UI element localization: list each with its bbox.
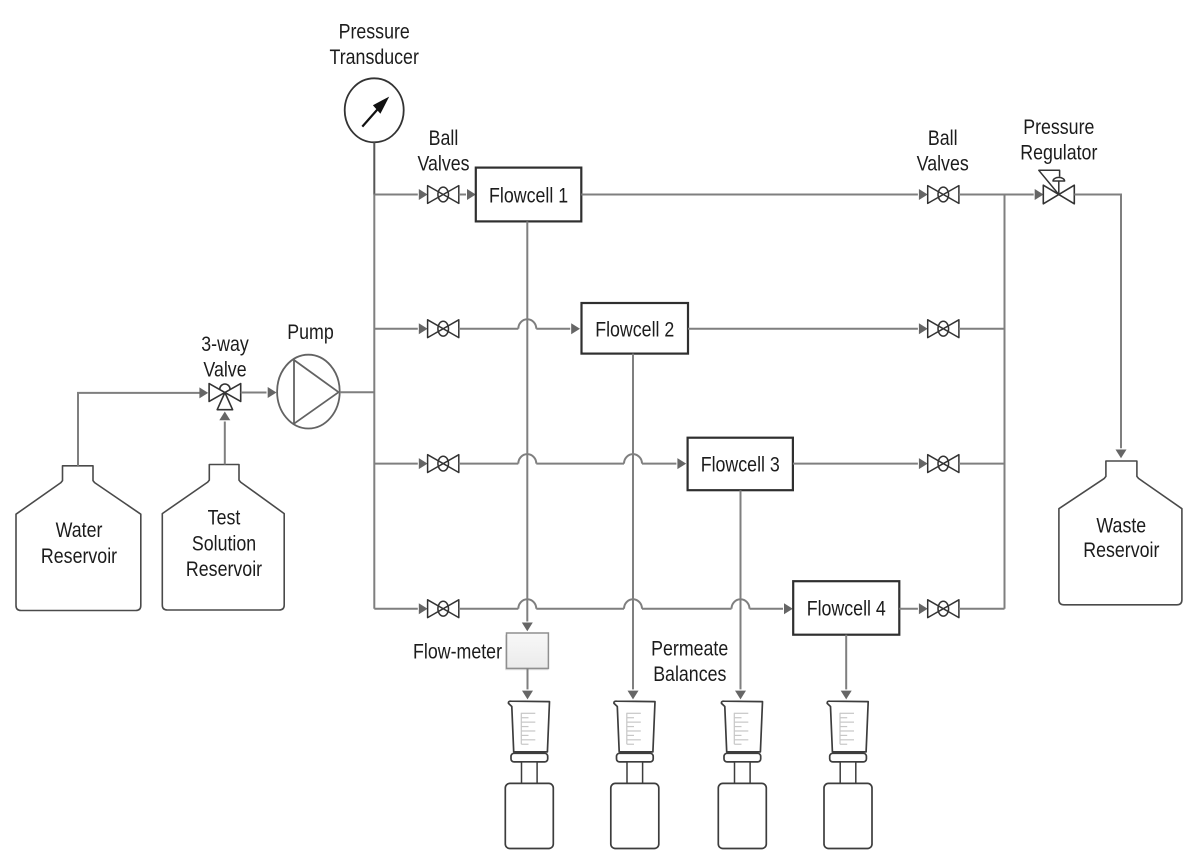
ball valve row2 left [428,320,459,338]
arrow into flowcell 3 [677,458,686,469]
svg-text:Permeate: Permeate [651,637,728,661]
water reservoir bottle [16,466,141,611]
label: Ball Valves (right) [917,127,969,176]
wire: row4 manifold to ball valve [374,608,418,610]
wire: gauge stem [373,142,375,194]
svg-text:Flowcell 2: Flowcell 2 [595,318,674,342]
arrow down into waste reservoir [1116,450,1127,459]
arrow into row3 right ball valve [919,458,928,469]
wire: row1 manifold to ball valve [374,194,418,196]
label: Flow-meter [413,640,502,664]
wire: flow-meter to beaker 1 [527,668,529,689]
wire: flowcell 4 to right ball valve [899,608,918,610]
wire: flowcell 1 to right ball valve [581,194,918,196]
wire: row3 manifold to ball valve [374,463,418,465]
wire: row3 valve to flowcell 3 (hops over permeate 1 and 2) [459,454,677,463]
arrow into pressure regulator [1035,189,1044,200]
flowcell 3 box [688,438,793,491]
svg-text:Water: Water [56,519,103,543]
label: 3-way Valve [201,332,249,382]
svg-text:Reservoir: Reservoir [186,558,263,582]
beaker and balance 1 [505,701,553,848]
ball valve row3 right [928,455,959,473]
svg-text:Valves: Valves [917,152,969,176]
svg-text:Pump: Pump [287,320,334,344]
wire: water reservoir to 3-way valve [78,393,200,466]
waste reservoir bottle [1059,461,1182,605]
flowcell 4 box [793,581,899,635]
arrow into row2 left ball valve [419,323,428,334]
label: Ball Valves (left) [417,126,469,176]
ball valve row4 left [428,600,459,618]
wire: row2 manifold to ball valve [374,328,418,330]
svg-text:Regulator: Regulator [1020,141,1098,165]
wire: 3-way valve to pump [241,392,267,394]
svg-text:Ball: Ball [928,127,958,151]
arrow into 3-way valve (from water line) [199,387,208,398]
arrow into beaker 3 [735,691,746,700]
svg-text:Waste: Waste [1096,514,1146,538]
wire: row1 right valve to regulator [959,194,1034,196]
ball valve row1 left [428,186,459,204]
wire: flowcell 1 permeate line [526,221,528,621]
test solution reservoir bottle [162,465,284,611]
svg-text:Ball: Ball [429,126,459,150]
wire: pump outlet to supply manifold [340,391,375,393]
pressure transducer gauge [345,78,404,142]
wire: flowcell 3 permeate line [740,490,742,689]
wire: collection manifold vertical [1004,195,1006,609]
arrow into row1 left ball valve [419,189,428,200]
arrow into row2 right ball valve [919,323,928,334]
wire: flowcell 4 permeate line [845,635,847,690]
arrow into row3 left ball valve [419,458,428,469]
arrow into flowcell 1 [467,189,476,200]
ball valve row4 right [928,600,959,618]
flowcell 1 box [476,168,582,222]
svg-text:Flow-meter: Flow-meter [413,640,502,664]
3-way valve [209,384,241,410]
svg-text:Valve: Valve [203,358,246,382]
arrow into flowcell 2 [571,323,580,334]
wire: flowcell 2 to right ball valve [688,328,918,330]
wire: row4 valve to flowcell 4 (hops over permeates 1-3) [459,599,783,608]
svg-text:Flowcell 3: Flowcell 3 [701,453,780,477]
ball valve row2 right [928,320,959,338]
wire: supply manifold vertical [373,195,375,609]
pressure regulator valve [1039,170,1075,204]
wire: flowcell 2 permeate line [632,354,634,690]
wire: row4 right valve to manifold [959,608,1005,610]
arrow into pump [268,387,277,398]
svg-text:Pressure: Pressure [339,20,410,44]
ball valve row1 right [928,186,959,204]
arrow into beaker 4 [841,691,852,700]
wire: test solution reservoir riser [224,422,226,465]
beaker and balance 4 [824,701,872,848]
svg-text:Valves: Valves [417,152,469,176]
svg-text:Reservoir: Reservoir [41,544,118,568]
flow-meter box [505,633,548,670]
beaker and balance 3 [718,701,766,848]
arrow into beaker 2 [628,691,639,700]
svg-text:Reservoir: Reservoir [1083,539,1160,563]
svg-text:Transducer: Transducer [330,46,420,70]
wire: flowcell 3 to right ball valve [793,463,918,465]
wire: regulator to waste reservoir [1074,195,1121,449]
arrow into flowcell 4 [784,603,793,614]
svg-text:Balances: Balances [653,663,726,687]
wire: row2 valve to flowcell 2 (hop over permeate 1) [459,319,570,328]
arrow into row1 right ball valve [919,189,928,200]
arrow into row4 left ball valve [419,603,428,614]
arrow into flow-meter [522,623,533,632]
label: Pump [287,320,334,344]
svg-text:Test: Test [208,506,241,530]
svg-text:Flowcell 4: Flowcell 4 [807,597,886,621]
arrow into beaker 1 [522,691,533,700]
flowcell 2 box [582,303,689,354]
pump [277,355,340,429]
ball valve row3 left [428,455,459,473]
wire: row1 valve to flowcell 1 [459,194,466,196]
svg-text:Pressure: Pressure [1023,116,1094,140]
wire: row3 right valve to manifold [959,463,1005,465]
wire: row2 right valve to manifold [959,328,1005,330]
svg-text:Flowcell 1: Flowcell 1 [489,184,568,208]
label: Pressure Regulator [1020,116,1098,165]
label: Pressure Transducer [330,20,420,70]
svg-text:3-way: 3-way [201,332,249,356]
label: Permeate Balances [651,637,728,686]
arrow into row4 right ball valve [919,603,928,614]
svg-text:Solution: Solution [192,532,256,556]
arrow up into 3-way valve [219,412,230,421]
beaker and balance 2 [611,701,659,848]
